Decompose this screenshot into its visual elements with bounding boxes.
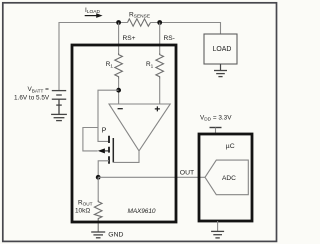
wire OUT to ADC (98, 176, 205, 178)
svg-text:MAX9610: MAX9610 (128, 208, 156, 215)
LOAD box (204, 34, 237, 64)
svg-text:µC: µC (226, 143, 235, 150)
svg-text:GND: GND (108, 231, 123, 238)
svg-text:LOAD: LOAD (213, 46, 232, 53)
gate bar (112, 138, 114, 162)
op-amp U1 (109, 104, 170, 151)
channel segments (108, 136, 110, 164)
svg-text:10kΩ: 10kΩ (75, 207, 90, 214)
IC box MAX9610 (72, 45, 176, 222)
node RS- junction (157, 20, 162, 25)
wire top rail from battery to load (59, 23, 221, 91)
svg-text:RS-: RS- (164, 35, 175, 42)
svg-text:RS+: RS+ (123, 35, 136, 42)
resistor RSENSE (128, 19, 151, 26)
svg-text:P: P (102, 126, 107, 135)
wire feedback node A to FET source (98, 90, 119, 141)
battery VBATT (52, 91, 66, 115)
wire R1 left to node A (118, 79, 120, 105)
wire RS+ down into box (118, 23, 120, 54)
wire gate to op-amp output (113, 151, 139, 163)
wire drain to OUT node (98, 161, 109, 178)
resistor R1 left (115, 53, 123, 79)
transistor P-channel MOSFET (98, 126, 114, 164)
node A junction (116, 88, 121, 93)
svg-text:OUT: OUT (180, 170, 194, 177)
ground GND below ROUT (91, 232, 105, 238)
bulk arrow (98, 148, 105, 153)
node OUT junction (96, 175, 101, 180)
resistor R1 right (156, 53, 164, 79)
svg-text:1.6V to 5.5V: 1.6V to 5.5V (14, 94, 50, 101)
wire bulk loop (83, 128, 98, 151)
arrow ILOAD (85, 15, 98, 17)
resistor ROUT (97, 177, 99, 200)
svg-text:ADC: ADC (222, 175, 236, 182)
ADC block (205, 160, 248, 195)
wire R1 right to op-amp + input (159, 79, 161, 105)
ground battery (51, 114, 67, 120)
node RS+ junction (116, 20, 121, 25)
ground LOAD (220, 64, 222, 70)
uC box (199, 134, 252, 221)
wire RS- down into box (159, 23, 161, 54)
ground uC (217, 221, 219, 231)
